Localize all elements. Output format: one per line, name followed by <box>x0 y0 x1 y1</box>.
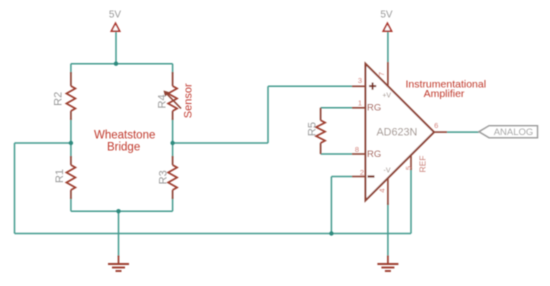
pin 1 stub <box>352 107 366 109</box>
ground: amplifier -V <box>377 256 398 272</box>
wire: long bottom run <box>15 233 412 235</box>
svg-text:5V: 5V <box>109 10 122 21</box>
wire: pin 2 minus input horizontal <box>331 176 352 178</box>
svg-text:1: 1 <box>358 98 362 107</box>
wire: pin 4 to ground <box>387 203 389 257</box>
wire: left bridge lower column bottom segment <box>70 198 72 212</box>
svg-text:6: 6 <box>434 121 438 130</box>
junction: left bridge node <box>69 141 73 145</box>
svg-text:AD623N: AD623N <box>376 126 417 138</box>
wire: pin 8 RG to R5 bottom <box>321 153 352 155</box>
svg-text:5V: 5V <box>380 10 393 21</box>
wire: right bridge lower column top segment <box>172 143 174 158</box>
svg-text:R2: R2 <box>52 92 64 106</box>
junction: 5V to top rail <box>114 62 118 66</box>
junction: bridge bottom center <box>116 209 120 213</box>
svg-text:R1: R1 <box>54 169 66 183</box>
svg-text:RG: RG <box>367 149 381 160</box>
svg-text:4: 4 <box>378 188 387 192</box>
svg-text:8: 8 <box>355 145 359 154</box>
svg-text:3: 3 <box>358 76 362 85</box>
pin 6 output stub <box>434 131 447 133</box>
svg-text:Sensor: Sensor <box>182 83 194 118</box>
ground: bridge center <box>108 256 129 272</box>
wire: top bridge rail <box>71 63 173 65</box>
svg-text:Bridge: Bridge <box>107 142 140 154</box>
resistor R3 <box>168 156 177 199</box>
wire: left bridge upper column bottom segment <box>70 119 72 144</box>
svg-text:R5: R5 <box>307 122 319 136</box>
wire: left bridge lower column top segment <box>70 143 72 158</box>
svg-text:R3: R3 <box>158 170 170 184</box>
pin 8 stub <box>352 153 366 155</box>
svg-text:Amplifier: Amplifier <box>424 88 465 100</box>
pin 5 REF vertical lead <box>410 156 412 170</box>
svg-text:2: 2 <box>360 168 364 177</box>
svg-text:REF: REF <box>417 156 427 173</box>
wire: right bridge upper column bottom segment <box>172 119 174 144</box>
pin 2 stub <box>352 176 366 178</box>
power symbol: 5V right <box>380 10 393 32</box>
junction: minus input on bottom run <box>329 231 333 235</box>
wire: 5V supply drop to pin 7 <box>387 31 389 62</box>
wire: output to ANALOG tag <box>447 131 479 133</box>
pin 3 stub <box>352 85 366 87</box>
wire: pin 5 REF drop to bottom run <box>410 168 412 234</box>
svg-text:R4: R4 <box>156 94 168 108</box>
svg-text:5: 5 <box>404 166 413 170</box>
wire: right bridge upper column top segment <box>172 64 174 74</box>
svg-text:+V: +V <box>382 92 391 99</box>
pin 4 -V vertical lead <box>387 178 389 205</box>
svg-text:7: 7 <box>377 72 386 76</box>
wire: pin 2 drop to bottom run <box>330 177 332 234</box>
pin 7 +V vertical lead <box>387 62 389 87</box>
resistor R2 <box>66 72 75 120</box>
wire: bridge center to ground <box>118 211 120 257</box>
wire: to pin 3 plus input <box>268 85 352 87</box>
label Instrumentational Amplifier <box>406 79 487 100</box>
wire: far left vertical <box>14 143 16 234</box>
wire: left node stub <box>15 142 71 144</box>
svg-text:Wheatstone: Wheatstone <box>94 130 155 142</box>
op-amp U1 AD623N triangle body <box>366 64 435 201</box>
wire: bottom bridge rail <box>71 210 173 212</box>
svg-text:RG: RG <box>367 103 381 114</box>
minus input marker <box>368 175 375 177</box>
svg-text:-V: -V <box>384 168 391 175</box>
plus input marker <box>369 83 376 90</box>
power symbol: 5V left <box>109 10 122 32</box>
resistor R5 <box>316 108 325 154</box>
wire: right bridge lower column bottom segment <box>172 198 174 212</box>
wire: right node to riser <box>173 142 268 144</box>
resistor R4 (sensor potentiometer) <box>164 72 182 120</box>
net tag ANALOG <box>479 126 538 138</box>
label Wheatstone Bridge <box>94 130 155 154</box>
wire: 5V supply drop to top rail <box>115 31 117 64</box>
junction: right bridge node <box>170 141 174 145</box>
wire: left bridge upper column top segment <box>70 64 72 74</box>
svg-text:ANALOG: ANALOG <box>494 127 534 138</box>
resistor R1 <box>66 156 75 199</box>
wire: riser to plus input level <box>267 86 269 143</box>
wire: pin 1 RG to R5 top <box>321 107 352 109</box>
